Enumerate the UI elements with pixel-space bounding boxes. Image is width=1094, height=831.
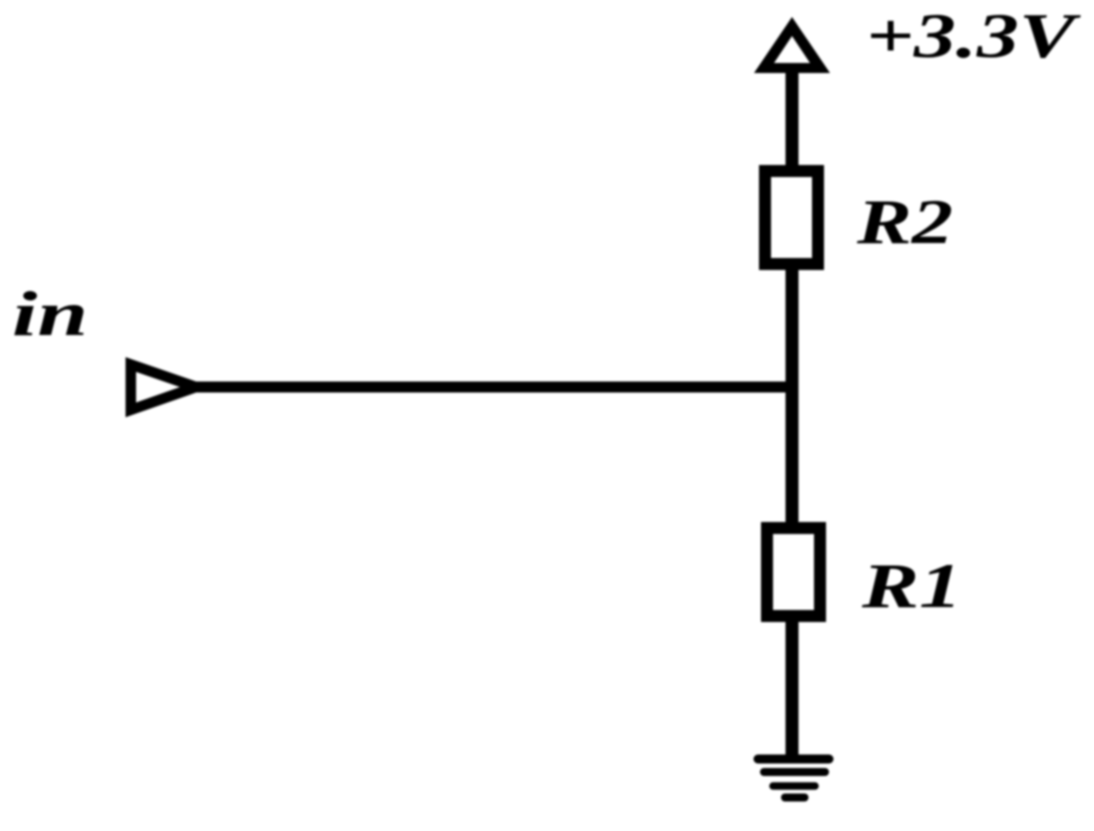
wire R2 to junction to R1 (786, 264, 799, 528)
wire input to junction (190, 382, 797, 393)
resistor R2 (765, 171, 818, 264)
resistor R1 (767, 528, 820, 616)
wire power arrow to R2 (786, 70, 799, 170)
svg-text:R2: R2 (856, 186, 953, 257)
wire R1 to ground (786, 616, 799, 759)
ground (758, 759, 829, 798)
input port triangle "in" (131, 365, 196, 410)
svg-text:in: in (12, 278, 88, 349)
svg-text:R1: R1 (861, 550, 962, 621)
power symbol +3.3V arrow (754, 17, 830, 73)
svg-text:+3.3V: +3.3V (866, 0, 1082, 71)
